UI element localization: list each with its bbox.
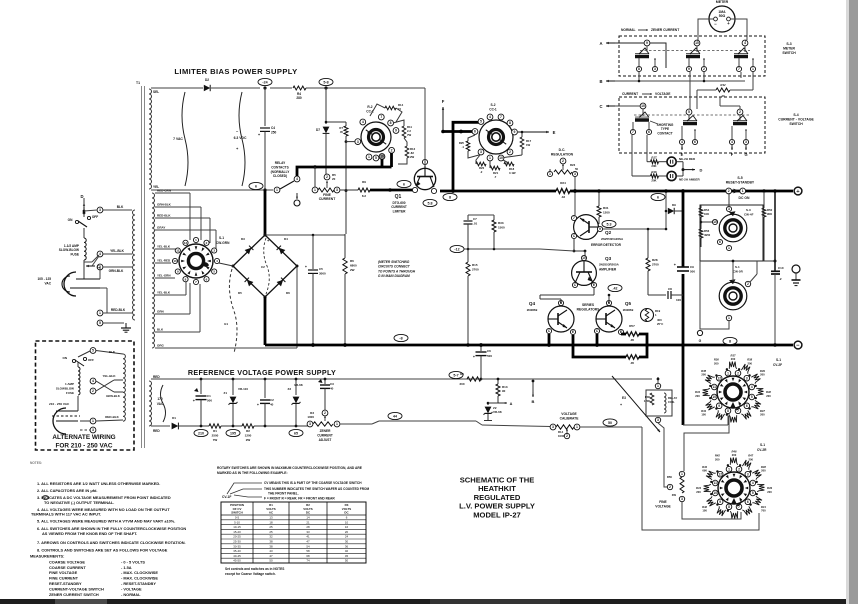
wire D9 column bbox=[665, 191, 667, 229]
wire top rail y88 bbox=[151, 87, 203, 89]
svg-text:FUSE: FUSE bbox=[70, 252, 79, 256]
brace 170 VAC bbox=[161, 385, 166, 422]
svg-text:200: 200 bbox=[760, 373, 765, 377]
svg-text:NORMAL: NORMAL bbox=[621, 28, 635, 32]
svg-text:Q5: Q5 bbox=[625, 301, 632, 306]
svg-text:R1: R1 bbox=[213, 429, 217, 433]
node B arrow small bbox=[532, 381, 534, 392]
svg-text:CIRCUITS CONNECT: CIRCUITS CONNECT bbox=[378, 265, 411, 269]
brace 7 VAC bbox=[182, 92, 188, 186]
svg-text:REGULATED: REGULATED bbox=[474, 493, 521, 502]
S-3 wafer 3 bbox=[742, 40, 748, 46]
svg-text:E1: E1 bbox=[224, 322, 228, 326]
nodes E F G arrows bbox=[681, 145, 683, 150]
svg-text:- 1.5A: - 1.5A bbox=[121, 565, 132, 570]
svg-text:50: 50 bbox=[345, 559, 349, 563]
svg-text:10-15: 10-15 bbox=[233, 525, 241, 529]
svg-text:RED-BLK: RED-BLK bbox=[111, 308, 126, 312]
svg-text:6: 6 bbox=[694, 140, 696, 144]
svg-text:33: 33 bbox=[306, 530, 310, 534]
svg-text:OFF: OFF bbox=[92, 215, 98, 219]
svg-text:Z1: Z1 bbox=[223, 391, 227, 395]
svg-text:R50: R50 bbox=[667, 475, 673, 479]
wire primary tap 3 BLK bbox=[103, 209, 132, 211]
svg-text:R57: R57 bbox=[629, 324, 635, 328]
svg-text:GRN: GRN bbox=[157, 310, 164, 314]
svg-text:1: 1 bbox=[99, 311, 101, 315]
wire Q2 base to right column bbox=[603, 228, 666, 230]
brace C2 dashed through bridge bbox=[264, 238, 270, 294]
svg-text:RED: RED bbox=[153, 429, 160, 433]
svg-text:5: 5 bbox=[99, 321, 101, 325]
alternate wiring dashed box bbox=[36, 341, 135, 450]
svg-text:200: 200 bbox=[732, 453, 737, 457]
svg-text:−: − bbox=[714, 22, 717, 27]
svg-text:MEASUREMENTS:: MEASUREMENTS: bbox=[30, 554, 64, 559]
svg-text:6: 6 bbox=[255, 184, 257, 188]
svg-text:ALTERNATE WIRING: ALTERNATE WIRING bbox=[52, 434, 115, 441]
svg-text:6: 6 bbox=[746, 404, 748, 408]
wire ORG tap to bridge right bbox=[296, 267, 298, 348]
svg-text:A: A bbox=[510, 402, 513, 406]
svg-text:NE-2H RED: NE-2H RED bbox=[679, 157, 696, 161]
svg-text:7: 7 bbox=[573, 216, 575, 220]
svg-text:45: 45 bbox=[345, 554, 349, 558]
resistor R14 15 bbox=[385, 106, 396, 110]
svg-text:- MAX. CLOCKWISE: - MAX. CLOCKWISE bbox=[121, 570, 158, 575]
svg-text:+: + bbox=[727, 21, 730, 26]
svg-text:B: B bbox=[532, 399, 535, 404]
wire S-4 to lamps bbox=[631, 135, 633, 176]
resistor R32 40 bbox=[752, 72, 754, 90]
svg-text:1: 1 bbox=[728, 467, 730, 471]
svg-text:1: 1 bbox=[742, 189, 744, 193]
svg-text:8: 8 bbox=[728, 505, 730, 509]
svg-text:50: 50 bbox=[269, 559, 273, 563]
CC-1 pins bbox=[472, 129, 478, 135]
svg-text:S-1: S-1 bbox=[776, 358, 781, 362]
voltage oval 50 bbox=[603, 419, 617, 426]
alternate wiring fuse bbox=[78, 367, 80, 395]
wire secondary tap YEL-BLK bbox=[155, 248, 176, 250]
svg-text:- VOLTAGE: - VOLTAGE bbox=[121, 586, 142, 591]
svg-text:- RESET-STANDBY: - RESET-STANDBY bbox=[121, 581, 156, 586]
chassis ground symbol bbox=[792, 265, 800, 273]
svg-text:RESET-STANDBY: RESET-STANDBY bbox=[726, 180, 755, 184]
capacitor C1 500 bbox=[200, 379, 202, 394]
zener Z3 VR-68 bbox=[295, 379, 297, 395]
rotary switch S-1 CW-GRN bbox=[179, 244, 213, 278]
transistor Q2 error detector bbox=[574, 215, 599, 240]
svg-text:16: 16 bbox=[345, 525, 349, 529]
CC-2 pins bbox=[360, 119, 366, 125]
svg-text:R47: R47 bbox=[748, 454, 753, 458]
voltage oval 6 right bbox=[651, 193, 665, 200]
svg-text:VR-110: VR-110 bbox=[238, 387, 248, 391]
svg-text:1500: 1500 bbox=[498, 226, 505, 230]
svg-text:1: 1 bbox=[657, 384, 659, 388]
svg-text:3: 3 bbox=[657, 418, 659, 422]
svg-text:ZENER: ZENER bbox=[320, 429, 332, 433]
svg-text:9: 9 bbox=[395, 129, 397, 133]
svg-text:100: 100 bbox=[702, 509, 707, 513]
svg-text:CLOSED): CLOSED) bbox=[273, 174, 287, 178]
svg-text:15-20: 15-20 bbox=[233, 530, 241, 534]
svg-text:5-10: 5-10 bbox=[234, 520, 240, 524]
svg-text:40-45: 40-45 bbox=[233, 554, 241, 558]
transformer T1 main secondary winding bbox=[152, 193, 155, 348]
svg-text:47: 47 bbox=[306, 540, 310, 544]
svg-text:200: 200 bbox=[715, 457, 720, 461]
svg-text:.35: .35 bbox=[630, 361, 635, 365]
svg-text:11: 11 bbox=[713, 385, 717, 389]
svg-text:except for Coarse Voltage swit: except for Coarse Voltage switch. bbox=[225, 572, 276, 576]
wire primary tap 2 GRN-BLK bbox=[103, 266, 132, 268]
svg-text:6: 6 bbox=[474, 130, 476, 134]
S-3 rotor dashed line bbox=[640, 50, 750, 52]
svg-text:20: 20 bbox=[345, 530, 349, 534]
svg-text:FOR 210 - 250 VAC: FOR 210 - 250 VAC bbox=[55, 443, 112, 450]
svg-text:D4: D4 bbox=[284, 237, 288, 241]
svg-text:T1: T1 bbox=[136, 81, 140, 85]
svg-text:47: 47 bbox=[269, 554, 273, 558]
svg-text:3: 3 bbox=[357, 140, 359, 144]
svg-text:68: 68 bbox=[306, 554, 310, 558]
svg-text:20: 20 bbox=[332, 177, 336, 181]
resistor R52 90K bbox=[762, 208, 766, 217]
svg-text:2: 2 bbox=[509, 150, 511, 154]
svg-text:3W: 3W bbox=[672, 493, 677, 497]
wire Q1 collector from top rail bbox=[424, 88, 426, 166]
S-1 CW-GRN pins bbox=[193, 237, 198, 242]
S-3 wafer 2 bbox=[694, 40, 700, 46]
svg-text:-24: -24 bbox=[262, 80, 267, 84]
svg-text:1000: 1000 bbox=[558, 434, 565, 438]
lamp PL-2 NE-2H RED bbox=[659, 161, 668, 163]
svg-text:5: 5 bbox=[375, 156, 377, 160]
resistor R15 2700 bbox=[467, 249, 469, 262]
wire primary tap 5 to ground bbox=[103, 322, 124, 324]
wire thick Q1 emitter to bus bbox=[440, 190, 453, 193]
resistor R55 4950 bbox=[699, 229, 703, 238]
svg-text:VR-68: VR-68 bbox=[493, 410, 502, 414]
svg-text:SERIES: SERIES bbox=[582, 303, 595, 307]
svg-text:1: 1 bbox=[727, 371, 729, 375]
svg-text:HEATHKIT: HEATHKIT bbox=[478, 484, 516, 493]
svg-text:YEL-BLK: YEL-BLK bbox=[103, 374, 117, 378]
svg-text:CURRENT: CURRENT bbox=[317, 433, 333, 437]
svg-text:D1: D1 bbox=[172, 416, 176, 420]
svg-text:1: 1 bbox=[752, 67, 754, 71]
svg-text:R39: R39 bbox=[760, 369, 765, 373]
wire secondary tap RED-GRN bbox=[155, 192, 190, 194]
svg-text:690: 690 bbox=[702, 469, 707, 473]
svg-text:C4: C4 bbox=[271, 126, 275, 130]
diode D1 bbox=[172, 423, 179, 430]
svg-text:10: 10 bbox=[380, 155, 384, 159]
node F arrow bbox=[442, 107, 444, 130]
svg-text:30-35: 30-35 bbox=[233, 544, 241, 548]
svg-text:COARSE CURRENT: COARSE CURRENT bbox=[49, 565, 86, 570]
svg-text:+: + bbox=[257, 403, 259, 407]
wires taps to switch S-1 CW-GRN bbox=[189, 193, 191, 240]
svg-text:FINE CURRENT: FINE CURRENT bbox=[49, 576, 79, 581]
svg-text:D.C.: D.C. bbox=[559, 148, 566, 152]
svg-text:12: 12 bbox=[717, 376, 721, 380]
svg-text:2: 2 bbox=[728, 189, 730, 193]
svg-text:2700: 2700 bbox=[472, 268, 479, 272]
svg-text:25: 25 bbox=[269, 530, 273, 534]
svg-text:VOLTAGE: VOLTAGE bbox=[561, 412, 577, 416]
svg-text:3: 3 bbox=[746, 376, 748, 380]
alternate wiring pins 1 3 bbox=[90, 418, 96, 424]
alternate wiring pin 5 bbox=[90, 348, 96, 354]
svg-text:FINE VOLTAGE: FINE VOLTAGE bbox=[49, 570, 78, 575]
svg-text:50Ω: 50Ω bbox=[719, 14, 726, 18]
svg-text:ORG: ORG bbox=[157, 344, 165, 348]
svg-text:74: 74 bbox=[306, 559, 310, 563]
svg-text:5: 5 bbox=[751, 395, 753, 399]
svg-text:1W: 1W bbox=[526, 143, 531, 147]
svg-text:4: 4 bbox=[731, 140, 733, 144]
svg-text:SWITCH: SWITCH bbox=[782, 51, 796, 55]
svg-text:500: 500 bbox=[207, 399, 212, 403]
svg-text:(NORMALLY: (NORMALLY bbox=[271, 170, 291, 174]
svg-text:R49: R49 bbox=[767, 486, 772, 490]
svg-text:R17: R17 bbox=[651, 156, 657, 160]
wire mid rail to voltage calibrate bbox=[476, 421, 482, 425]
svg-text:NOTES:: NOTES: bbox=[30, 461, 42, 465]
terminal positive output bbox=[794, 187, 802, 195]
svg-text:25: 25 bbox=[269, 525, 273, 529]
svg-text:11: 11 bbox=[714, 481, 718, 485]
svg-text:3: 3 bbox=[309, 422, 311, 426]
svg-text:1200: 1200 bbox=[644, 399, 651, 403]
wire plug to transformer taps bbox=[99, 267, 101, 279]
svg-text:C6: C6 bbox=[487, 349, 491, 353]
svg-text:210: 210 bbox=[198, 431, 204, 435]
wire fine current branch bbox=[314, 167, 316, 187]
wire thick Q4 emitter through R58 bbox=[573, 335, 626, 357]
svg-text:CURRENT: CURRENT bbox=[622, 92, 638, 96]
svg-text:C9: C9 bbox=[690, 265, 694, 269]
svg-text:ON: ON bbox=[63, 356, 68, 360]
svg-text:E3: E3 bbox=[622, 396, 626, 400]
svg-text:5: 5 bbox=[92, 349, 94, 353]
voltage table bbox=[221, 502, 366, 563]
voltage oval 6 at Q1 bbox=[397, 180, 411, 187]
wire secondary tap BLK bbox=[155, 331, 200, 333]
svg-text:6: 6 bbox=[719, 240, 721, 244]
svg-text:S-1: S-1 bbox=[760, 443, 765, 447]
svg-text:8. CONTROLS AND SWITCHES ARE: 8. CONTROLS AND SWITCHES ARE SET AS FOLL… bbox=[37, 548, 168, 553]
svg-text:2: 2 bbox=[326, 175, 328, 179]
page bottom edge strip bbox=[0, 599, 846, 604]
svg-text:2: 2 bbox=[703, 67, 705, 71]
capacitor C4 250 bbox=[264, 88, 266, 126]
svg-text:8: 8 bbox=[390, 121, 392, 125]
svg-text:200: 200 bbox=[761, 469, 766, 473]
capacitor C9 500 bbox=[677, 266, 689, 268]
transistor Q3 amplifier bbox=[572, 261, 597, 286]
brace E1 dashed bbox=[229, 269, 237, 353]
svg-text:SWITCH: SWITCH bbox=[789, 122, 803, 126]
wire Q2 base rail bbox=[462, 248, 540, 250]
svg-text:14: 14 bbox=[306, 516, 310, 520]
voltage oval -8 left bbox=[394, 334, 408, 341]
wire rotary1 to fine voltage pot bbox=[684, 414, 729, 471]
wire primary tap 4 YEL-BLK bbox=[103, 253, 132, 255]
svg-text:2: 2 bbox=[92, 389, 94, 393]
svg-text:500: 500 bbox=[690, 270, 695, 274]
svg-text:C3: C3 bbox=[330, 382, 334, 386]
resistor R13 90 bbox=[497, 379, 499, 384]
svg-text:R33: R33 bbox=[498, 221, 504, 225]
svg-text:COARSE VOLTAGE: COARSE VOLTAGE bbox=[49, 559, 85, 564]
svg-text:C5: C5 bbox=[319, 267, 323, 271]
svg-text:TO NEGATIVE (-) OUTPUT TERMINA: TO NEGATIVE (-) OUTPUT TERMINAL. bbox=[44, 500, 114, 505]
svg-text:4: 4 bbox=[296, 177, 298, 181]
resistor R6 6800 2W bbox=[344, 234, 346, 258]
svg-text:1200: 1200 bbox=[603, 211, 610, 215]
svg-text:R2: R2 bbox=[246, 429, 250, 433]
wire wafer columns down bbox=[719, 97, 721, 106]
wire thick C4 junction down to bridge bbox=[264, 190, 267, 235]
rotary control CC-1 bbox=[479, 120, 513, 154]
wire secondary tap YEL-RED bbox=[155, 262, 171, 264]
svg-text:5.3: 5.3 bbox=[607, 222, 612, 226]
voltage oval 5.3 at Q2 bbox=[602, 220, 616, 227]
resistor R33 1500 bbox=[493, 215, 495, 220]
svg-text:CURRENT: CURRENT bbox=[319, 197, 337, 201]
svg-text:CV-1F: CV-1F bbox=[222, 495, 231, 499]
S-4 wafer 2 bbox=[686, 109, 692, 115]
svg-text:3: 3 bbox=[92, 428, 94, 432]
svg-text:200: 200 bbox=[459, 382, 464, 386]
S-4 wafer 3 bbox=[737, 109, 743, 115]
voltage oval 8 bbox=[443, 193, 457, 200]
svg-text:2N2869: 2N2869 bbox=[527, 308, 538, 312]
svg-text:500: 500 bbox=[487, 354, 492, 358]
svg-text:DC ON: DC ON bbox=[739, 196, 750, 200]
svg-text:.33: .33 bbox=[561, 195, 566, 199]
svg-text:1. ALL RESISTORS ARE 1/2 WATT: 1. ALL RESISTORS ARE 1/2 WATT UNLESS OTH… bbox=[37, 481, 160, 486]
brace 6.3 VDC bbox=[239, 92, 245, 186]
resistor R11 2.2 7W bbox=[402, 126, 406, 138]
svg-text:R5: R5 bbox=[460, 372, 464, 376]
svg-text:R48: R48 bbox=[761, 465, 766, 469]
svg-text:FINE: FINE bbox=[659, 500, 667, 504]
svg-text:8.2: 8.2 bbox=[362, 194, 367, 198]
svg-text:S-5: S-5 bbox=[737, 176, 742, 180]
wire thick Q5 collector to bus bbox=[596, 334, 599, 345]
svg-text:METER: METER bbox=[716, 0, 729, 4]
svg-text:C2: C2 bbox=[270, 398, 274, 402]
transistor Q4 2N2869 bbox=[548, 306, 574, 332]
svg-text:.2: .2 bbox=[779, 277, 782, 281]
wire secondary tap GRN bbox=[155, 313, 190, 315]
capacitor C10 .2 bbox=[774, 191, 776, 271]
wire S-5 to CW-4F bbox=[728, 193, 730, 206]
svg-text:S-1: S-1 bbox=[219, 236, 224, 240]
wire secondary tap ORG bbox=[155, 347, 297, 349]
svg-text:SWITCH: SWITCH bbox=[231, 511, 242, 515]
svg-text:- NORMAL: - NORMAL bbox=[121, 592, 141, 597]
svg-text:ROTARY SWITCHES ARE SHOWN IN M: ROTARY SWITCHES ARE SHOWN IN MAXIMUM COU… bbox=[217, 466, 363, 470]
svg-text:1: 1 bbox=[368, 155, 370, 159]
wire secondary tap RED-BLK bbox=[155, 217, 210, 219]
wire DC reg to Q2 column bbox=[574, 177, 576, 215]
svg-text:50: 50 bbox=[608, 421, 612, 425]
svg-text:CW-4F: CW-4F bbox=[744, 213, 754, 217]
wire Q2 emitter to Q3 bbox=[573, 239, 575, 251]
svg-text:2W: 2W bbox=[246, 438, 251, 442]
svg-text:5: 5 bbox=[752, 491, 754, 495]
svg-text:R32: R32 bbox=[720, 83, 726, 87]
voltage oval 5-7 bbox=[449, 371, 463, 378]
svg-text:SEL: SEL bbox=[153, 90, 159, 94]
svg-text:1: 1 bbox=[489, 156, 491, 160]
rotary switch S-1 CV-2F coarse voltage front bbox=[717, 376, 749, 408]
svg-text:2: 2 bbox=[737, 371, 739, 375]
svg-text:170: 170 bbox=[157, 397, 163, 401]
svg-text:- 0 - 5 VOLTS: - 0 - 5 VOLTS bbox=[121, 559, 145, 564]
svg-text:R31: R31 bbox=[603, 206, 609, 210]
wire R7 column down to R6 bbox=[345, 142, 347, 234]
node C arrow right bbox=[606, 105, 615, 107]
svg-text:B: B bbox=[599, 79, 602, 84]
svg-text:1 AMP: 1 AMP bbox=[65, 382, 74, 386]
node G stub bbox=[697, 330, 702, 335]
svg-text:R15: R15 bbox=[472, 263, 478, 267]
svg-text:200: 200 bbox=[696, 490, 701, 494]
svg-text:54: 54 bbox=[306, 544, 310, 548]
svg-text:3: 3 bbox=[654, 67, 656, 71]
svg-text:CW-GRN: CW-GRN bbox=[216, 241, 230, 245]
terminal negative output bbox=[794, 341, 802, 349]
svg-text:12: 12 bbox=[718, 472, 722, 476]
wire secondary tap YEL-BLK bbox=[155, 294, 186, 296]
potentiometer R5 fine current bbox=[312, 187, 318, 193]
thermistor R19 bbox=[641, 309, 654, 322]
transistor Q5 2N2869 bbox=[596, 306, 622, 332]
wire secondary tap GRAY bbox=[155, 229, 216, 231]
svg-text:10: 10 bbox=[345, 520, 349, 524]
svg-text:12: 12 bbox=[184, 241, 188, 245]
svg-text:9: 9 bbox=[646, 41, 648, 45]
svg-text:R38: R38 bbox=[747, 358, 752, 362]
node A arrow bbox=[606, 42, 615, 44]
svg-text:38: 38 bbox=[269, 544, 273, 548]
wire bridge top to C5 R6 bbox=[266, 234, 345, 236]
svg-text:YEL-RED: YEL-RED bbox=[157, 259, 171, 263]
svg-text:2N2553FG26SA: 2N2553FG26SA bbox=[601, 237, 624, 241]
wire meter pins to wafers bbox=[696, 46, 698, 52]
svg-text:2: 2 bbox=[669, 485, 671, 489]
AC plug 105-125 VAC bbox=[64, 272, 76, 296]
resistor R31 1200 bbox=[598, 191, 600, 206]
svg-text:NE-2H AMBER: NE-2H AMBER bbox=[679, 178, 701, 182]
svg-text:5-7: 5-7 bbox=[453, 373, 458, 377]
transistor Q1 DTG-600 bbox=[414, 168, 435, 189]
svg-text:COIL: COIL bbox=[668, 400, 675, 404]
svg-text:CURRENT - VOLTAGE: CURRENT - VOLTAGE bbox=[778, 118, 814, 122]
svg-text:8: 8 bbox=[727, 409, 729, 413]
svg-text:ON: ON bbox=[68, 218, 73, 222]
svg-text:1: 1 bbox=[336, 422, 338, 426]
svg-text:D: D bbox=[700, 168, 703, 173]
svg-text:LIMITER: LIMITER bbox=[393, 209, 406, 213]
